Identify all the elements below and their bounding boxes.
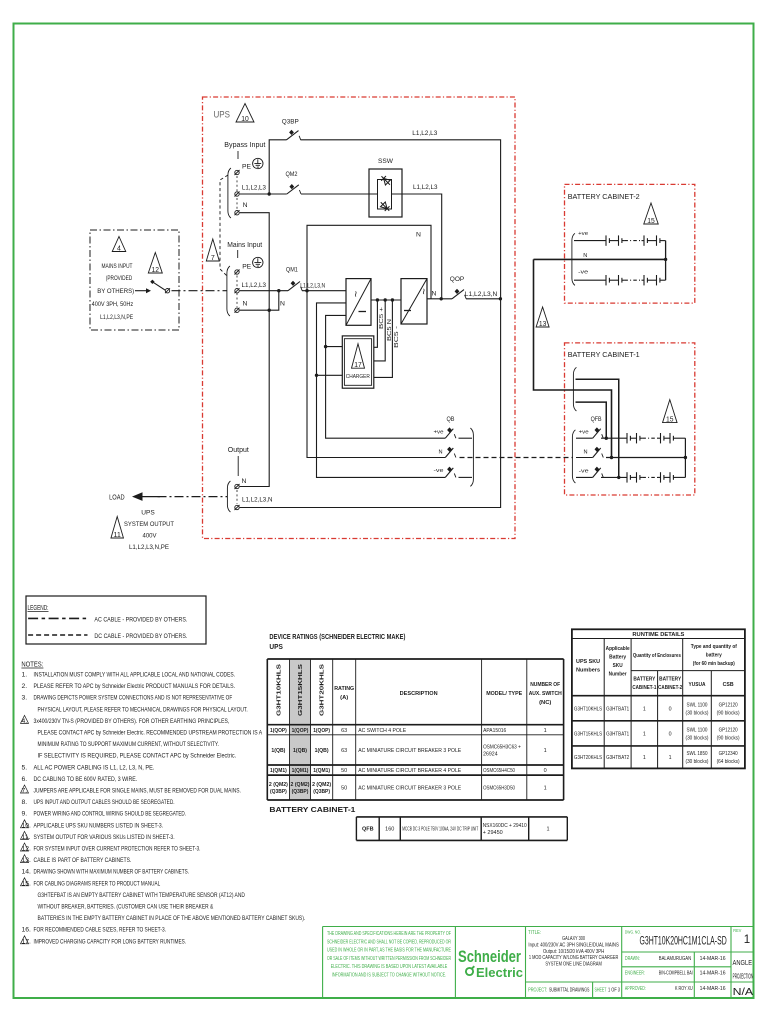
node: BC5- tap — [391, 298, 394, 301]
svg-text:1(QM1): 1(QM1) — [313, 768, 330, 774]
wire: SSW output down to QOP node — [402, 194, 442, 299]
wire: bypass N / output N vertical — [240, 213, 270, 487]
node: mains N tap — [268, 309, 271, 312]
mains terminal dashes — [236, 276, 238, 308]
svg-text:ELECTRIC. THIS DRAWING IS BASE: ELECTRIC. THIS DRAWING IS BASED UPON LAT… — [331, 964, 448, 970]
svg-text:UPS: UPS — [214, 110, 231, 121]
mains N terminal — [235, 308, 239, 312]
svg-text:Quantity of Enclosures: Quantity of Enclosures — [633, 653, 681, 659]
svg-text:1(QB): 1(QB) — [315, 748, 329, 754]
svg-text:7: 7 — [211, 255, 215, 262]
svg-text:G3HTEFBAT IS AN EMPTY BATTERY: G3HTEFBAT IS AN EMPTY BATTERY CABINET WI… — [38, 892, 245, 899]
battery table grid — [355, 817, 357, 841]
node: bypass L junction — [268, 192, 271, 195]
svg-text:SCHNEIDER ELECTRIC AND SHALL N: SCHNEIDER ELECTRIC AND SHALL NOT BE COPI… — [327, 939, 451, 945]
svg-text:QM2: QM2 — [286, 171, 298, 178]
mains source switch — [135, 290, 146, 292]
svg-text:N: N — [243, 202, 248, 209]
wire: BC5+ drop to charger — [374, 300, 378, 347]
svg-text:PLEASE CONTACT APC by Schneide: PLEASE CONTACT APC by Schneider Electric… — [38, 730, 263, 737]
note 13. — [21, 855, 29, 863]
svg-text:AC MINIATURE CIRCUIT BREAKER 4: AC MINIATURE CIRCUIT BREAKER 4 POLE — [358, 768, 461, 774]
svg-text:+ve: +ve — [434, 430, 444, 436]
legend AC sample — [28, 617, 87, 619]
wire: N loop to inverter output — [307, 225, 431, 298]
svg-text:UPS SKU: UPS SKU — [576, 659, 600, 665]
svg-text:CSB: CSB — [723, 682, 734, 688]
svg-text:1: 1 — [643, 706, 646, 712]
svg-text:1: 1 — [669, 755, 672, 761]
node: QM1 output junction — [305, 289, 308, 292]
svg-text:N: N — [243, 301, 248, 308]
device table gray column — [290, 659, 311, 800]
note 7. — [21, 785, 29, 793]
svg-text:QFB: QFB — [591, 416, 602, 423]
svg-text:(64 blocks): (64 blocks) — [717, 759, 740, 765]
svg-text:11: 11 — [113, 532, 121, 539]
svg-text:(30 blocks): (30 blocks) — [686, 735, 709, 741]
bypass L terminal — [235, 192, 239, 196]
wire: BC1 cable A to -ve — [576, 379, 619, 477]
svg-text:BATTERY CABINET-1: BATTERY CABINET-1 — [568, 350, 640, 359]
svg-text:4: 4 — [117, 245, 121, 252]
QB cable bracket — [470, 428, 473, 486]
svg-text:WITHOUT BREAKER, BATTERIES. (C: WITHOUT BREAKER, BATTERIES. (CUSTOMER CA… — [38, 904, 214, 911]
svg-text:-ve: -ve — [578, 270, 588, 276]
svg-text:POWER WIRING AND CONTROL WIRIN: POWER WIRING AND CONTROL WIRING SHOULD B… — [34, 811, 187, 818]
svg-text:BATTERY: BATTERY — [659, 677, 681, 683]
svg-text:SWL 1100: SWL 1100 — [687, 727, 708, 733]
UPS enclosure dashed box — [203, 97, 516, 539]
svg-text:Output: Output — [228, 447, 249, 454]
wire: BC5- drop to charger — [374, 300, 393, 377]
svg-text:1: 1 — [744, 934, 750, 946]
svg-text:(90 blocks): (90 blocks) — [717, 710, 740, 716]
svg-text:APPLICABLE UPS SKU NUMBERS LIS: APPLICABLE UPS SKU NUMBERS LISTED IN SHE… — [34, 822, 164, 829]
svg-text:-ve: -ve — [434, 468, 444, 474]
svg-text:N: N — [583, 253, 587, 259]
svg-text:17.: 17. — [22, 938, 32, 945]
BATTERY CABINET-2 dashed box — [565, 184, 695, 303]
svg-text:13: 13 — [539, 321, 547, 328]
svg-text:BC5 -: BC5 - — [394, 326, 400, 348]
svg-text:BC5 +: BC5 + — [379, 307, 385, 329]
wire: N bus down to QB N pole — [307, 291, 445, 458]
note 11. — [21, 831, 29, 839]
svg-text:Applicable: Applicable — [606, 646, 630, 652]
svg-text:(Q3BP): (Q3BP) — [292, 789, 309, 795]
svg-text:PROJECTION: PROJECTION — [733, 971, 754, 980]
svg-text:BC5 N: BC5 N — [387, 319, 393, 341]
svg-text:Input: 400/230V AC 3PH SINGLE/: Input: 400/230V AC 3PH SINGLE/DUAL MAINS — [528, 942, 618, 948]
node: BC5 N tap — [384, 298, 387, 301]
svg-text:BATTERIES IN THE EMPTY BATTERY: BATTERIES IN THE EMPTY BATTERY CABINET I… — [38, 915, 306, 922]
svg-text:AC CABLE - PROVIDED BY OTHERS.: AC CABLE - PROVIDED BY OTHERS. — [94, 617, 187, 624]
svg-text:CABINET-2: CABINET-2 — [658, 685, 682, 691]
svg-text:1: 1 — [544, 748, 547, 754]
svg-text:50: 50 — [341, 786, 347, 792]
svg-text:SKU: SKU — [613, 663, 623, 669]
svg-text:L1,L2,L3: L1,L2,L3 — [242, 185, 266, 192]
svg-text:OSMC65H3C63 +: OSMC65H3C63 + — [483, 744, 521, 750]
wire: BC2 N export down to BC1 — [534, 259, 612, 457]
svg-text:G3HT10KHLS: G3HT10KHLS — [276, 664, 282, 716]
BC1 right tie — [684, 438, 686, 477]
svg-text:Number: Number — [609, 672, 628, 678]
svg-text:12.: 12. — [22, 846, 32, 853]
svg-text:L1,L2,L3,N,PE: L1,L2,L3,N,PE — [129, 544, 169, 551]
node: SSW joins inverter output — [440, 297, 443, 300]
svg-text:12: 12 — [152, 267, 160, 274]
svg-text:PLEASE REFER TO APC by Schneid: PLEASE REFER TO APC by Schneider Electri… — [34, 683, 236, 690]
wire: QOP out — [466, 298, 501, 300]
svg-text:NOTES:: NOTES: — [21, 660, 43, 669]
svg-text:1: 1 — [546, 827, 549, 833]
svg-text:-ve: -ve — [579, 469, 589, 475]
svg-text:+ve: +ve — [579, 430, 589, 436]
wire: BC1 cable C to +ve — [576, 402, 607, 438]
wire: LOAD dash-dot — [158, 496, 228, 498]
svg-text:REV: REV — [733, 928, 741, 933]
wire: Q3BP output L1,L2,L3 top run — [240, 140, 501, 508]
svg-text:UPS INPUT AND OUTPUT CABLES SH: UPS INPUT AND OUTPUT CABLES SHOULD BE SE… — [34, 799, 175, 806]
svg-text:1: 1 — [544, 728, 547, 734]
svg-text:L1,L2,L3,N,PE: L1,L2,L3,N,PE — [100, 314, 133, 321]
svg-text:N: N — [584, 450, 588, 456]
svg-text:THE DRAWING AND SPECIFICATIONS: THE DRAWING AND SPECIFICATIONS HEREIN AR… — [327, 931, 451, 937]
svg-text:15.: 15. — [22, 880, 32, 887]
svg-text:DRAWING SHOWN WITH MAXIMUM NUM: DRAWING SHOWN WITH MAXIMUM NUMBER OF BAT… — [34, 869, 190, 876]
wire: DC link — [371, 299, 401, 301]
note flag triangle 15 (cabinet 2) — [644, 203, 659, 224]
legend box — [26, 596, 206, 644]
svg-text:+ve: +ve — [578, 231, 588, 237]
svg-text:~: ~ — [417, 288, 429, 294]
svg-text:13.: 13. — [22, 857, 32, 864]
svg-text:SYSTEM ONE LINE DIAGRAM: SYSTEM ONE LINE DIAGRAM — [545, 962, 602, 968]
svg-text:BATTERY CABINET-2: BATTERY CABINET-2 — [568, 192, 640, 201]
svg-text:AC SWITCH 4 POLE: AC SWITCH 4 POLE — [358, 728, 406, 734]
svg-text:SWL 1850: SWL 1850 — [687, 751, 708, 757]
svg-text:BATTERY: BATTERY — [633, 677, 655, 683]
svg-text:LEGEND:: LEGEND: — [28, 605, 49, 612]
svg-text:1(QOP): 1(QOP) — [292, 728, 309, 734]
svg-text:Schneider: Schneider — [458, 948, 521, 966]
mains terminal bracket — [227, 266, 230, 316]
svg-text:DEVICE RATINGS (SCHNEIDER ELEC: DEVICE RATINGS (SCHNEIDER ELECTRIC MAKE) — [269, 634, 405, 641]
svg-text:N: N — [416, 232, 421, 239]
svg-text:5.: 5. — [22, 764, 28, 771]
svg-text:Battery: Battery — [609, 655, 627, 661]
MAINS INPUT source box — [90, 230, 179, 330]
svg-text:16.: 16. — [22, 927, 32, 934]
note flag triangle 7 — [206, 239, 219, 261]
svg-text:DC CABLE - PROVIDED BY OTHERS.: DC CABLE - PROVIDED BY OTHERS. — [94, 633, 187, 640]
svg-text:ALL AC POWER CABLING IS L1, L2: ALL AC POWER CABLING IS L1, L2, L3, N, P… — [34, 764, 155, 771]
svg-text:1(QOP): 1(QOP) — [270, 728, 287, 734]
svg-text:FOR RECOMMENDED CABLE SIZES, R: FOR RECOMMENDED CABLE SIZES, REFER TO SH… — [34, 927, 167, 934]
svg-text:~: ~ — [349, 291, 361, 297]
svg-text:G3HT15KHLS: G3HT15KHLS — [298, 664, 304, 716]
svg-text:N: N — [432, 291, 437, 298]
svg-text:INFORMATION AND IS SUBJECT TO: INFORMATION AND IS SUBJECT TO CHANGE WIT… — [332, 973, 447, 979]
note flag triangle 11 — [111, 517, 124, 539]
svg-text:AC MINIATURE CIRCUIT BREAKER 3: AC MINIATURE CIRCUIT BREAKER 3 POLE — [358, 786, 461, 792]
svg-text:BIN-COMPBELL BAI: BIN-COMPBELL BAI — [659, 971, 693, 977]
svg-text:RUNTIME DETAILS: RUNTIME DETAILS — [632, 632, 684, 638]
svg-text:(Q3BP): (Q3BP) — [270, 789, 287, 795]
svg-text:IF SELECTIVITY IS REQUIRED, PL: IF SELECTIVITY IS REQUIRED, PLEASE CONTA… — [38, 753, 237, 760]
svg-text:SWL 1100: SWL 1100 — [687, 702, 708, 708]
svg-text:0: 0 — [669, 706, 672, 712]
node: BC5+ tap — [376, 298, 379, 301]
svg-text:Output: 10/15/20 kVA 400V 3PH: Output: 10/15/20 kVA 400V 3PH — [543, 949, 604, 955]
svg-text:OSMC65H3D50: OSMC65H3D50 — [483, 786, 515, 792]
svg-text:PE: PE — [242, 164, 251, 171]
svg-text:FOR CABLING DIAGRAMS REFER TO: FOR CABLING DIAGRAMS REFER TO PRODUCT MA… — [34, 880, 161, 887]
svg-text:G3HTBAT1: G3HTBAT1 — [606, 706, 629, 712]
svg-text:+ 29450: + 29450 — [483, 830, 503, 836]
svg-text:GP12340: GP12340 — [719, 751, 738, 757]
runtime table grid — [572, 629, 745, 768]
svg-text:L1,L2,L3,N: L1,L2,L3,N — [242, 497, 273, 504]
svg-text:Electric: Electric — [476, 965, 523, 980]
note flag triangle 13 — [536, 307, 549, 327]
svg-text:NUMBER OF: NUMBER OF — [530, 682, 560, 688]
svg-text:(90 blocks): (90 blocks) — [717, 735, 740, 741]
svg-text:NSX160DC + 29410: NSX160DC + 29410 — [483, 823, 527, 829]
svg-text:N: N — [242, 478, 247, 485]
svg-text:1.: 1. — [22, 672, 28, 679]
svg-text:SYSTEM OUTPUT FOR VARIOUS SKUs: SYSTEM OUTPUT FOR VARIOUS SKUs LISTED IN… — [34, 834, 175, 841]
svg-text:QOP: QOP — [450, 276, 465, 283]
note 17. — [21, 936, 29, 944]
svg-text:N: N — [280, 301, 285, 308]
wire: QM1 out to rectifier — [302, 290, 346, 292]
svg-text:MINIMUM RATING TO SUPPORT MAXI: MINIMUM RATING TO SUPPORT MAXIMUM CURREN… — [38, 741, 219, 748]
svg-text:(PROVIDED: (PROVIDED — [106, 275, 133, 282]
svg-text:(Q3BP): (Q3BP) — [313, 789, 330, 795]
svg-text:OR SALE OF ITEMS WITHOUT WRITT: OR SALE OF ITEMS WITHOUT WRITTEN PERMISS… — [327, 956, 451, 962]
svg-text:10.: 10. — [22, 822, 32, 829]
svg-text:15: 15 — [647, 218, 655, 225]
svg-text:G3HT20KHLS: G3HT20KHLS — [574, 755, 602, 761]
dashed jumper bypass-to-mains — [220, 175, 228, 276]
BC1 N row — [606, 457, 685, 459]
svg-text:1(QM1): 1(QM1) — [292, 768, 309, 774]
wire: AC dash-dot mains to UPS — [172, 290, 227, 292]
svg-text:L1,L2,L3: L1,L2,L3 — [242, 282, 267, 289]
svg-text:400V: 400V — [143, 533, 157, 540]
note 15. — [21, 878, 29, 886]
bypass PE terminal — [235, 170, 239, 174]
svg-text:PE: PE — [242, 264, 251, 271]
svg-text:26924: 26924 — [483, 751, 498, 757]
svg-text:1: 1 — [544, 786, 547, 792]
svg-text:APA15016: APA15016 — [483, 728, 506, 734]
svg-text:2 (QM2): 2 (QM2) — [312, 782, 331, 788]
legend DC sample — [28, 634, 87, 636]
svg-text:GALAXY 300: GALAXY 300 — [562, 936, 585, 942]
svg-text:G3HTBAT1: G3HTBAT1 — [606, 731, 629, 737]
device table grid — [266, 659, 268, 800]
svg-text:ANGLE: ANGLE — [733, 958, 753, 967]
wire: bypass L to QM2 — [240, 193, 287, 195]
svg-text:6.: 6. — [22, 776, 28, 783]
svg-text:G3HT10K20HC1M1CLA-SD: G3HT10K20HC1M1CLA-SD — [640, 936, 727, 948]
BC1 -ve battery string — [601, 476, 627, 478]
wire: bypass feed split vertical — [269, 140, 286, 194]
svg-text:MCCB DC 3 POLE 750V 100kA, 24V: MCCB DC 3 POLE 750V 100kA, 24V DC TRIP U… — [402, 827, 478, 833]
svg-text:1(QM1): 1(QM1) — [270, 768, 287, 774]
wire: inverter output — [427, 298, 452, 300]
svg-text:L1,L2,L3,N: L1,L2,L3,N — [465, 291, 498, 298]
svg-text:DC CABLING TO BE 600V RATED, 3: DC CABLING TO BE 600V RATED, 3 WIRE. — [34, 776, 138, 783]
svg-text:G3HT20KHLS: G3HT20KHLS — [320, 664, 326, 716]
svg-text:4.: 4. — [22, 718, 28, 725]
svg-text:QM1: QM1 — [286, 267, 298, 274]
svg-text:0: 0 — [669, 731, 672, 737]
svg-text:CABINET-1: CABINET-1 — [632, 685, 656, 691]
svg-text:K ROY XU: K ROY XU — [675, 986, 693, 992]
wire: QM2 to SSW — [301, 193, 369, 195]
BATTERY CABINET-1 dashed box — [565, 343, 695, 495]
output terminal dashes — [236, 490, 238, 504]
inverter (DC/AC) — [401, 279, 427, 324]
svg-text:INSTALLATION MUST COMPLY WITH: INSTALLATION MUST COMPLY WITH ALL APPLIC… — [34, 672, 236, 679]
svg-text:14-MAR-16: 14-MAR-16 — [700, 986, 726, 992]
note flag triangle 17 — [352, 344, 365, 369]
svg-text:N/A: N/A — [733, 986, 754, 998]
svg-text:AC MINIATURE CIRCUIT BREAKER 3: AC MINIATURE CIRCUIT BREAKER 3 POLE — [358, 748, 461, 754]
svg-text:BALAMURUGAN: BALAMURUGAN — [659, 956, 691, 962]
svg-text:SSW: SSW — [378, 158, 394, 165]
svg-text:L1,L2,L3: L1,L2,L3 — [412, 130, 437, 137]
svg-text:Numbers: Numbers — [576, 668, 600, 674]
svg-text:63: 63 — [341, 748, 347, 754]
svg-text:USED IN WHOLE OR IN PART, AS T: USED IN WHOLE OR IN PART, AS THE BASIS F… — [327, 948, 451, 954]
svg-text:1(QB): 1(QB) — [271, 748, 285, 754]
svg-text:battery: battery — [706, 653, 723, 659]
svg-text:Mains Input: Mains Input — [227, 242, 262, 249]
svg-text:Q3BP: Q3BP — [282, 119, 299, 126]
wire: BC5 N drop to charger — [374, 300, 385, 361]
svg-text:OSMC65H4C50: OSMC65H4C50 — [483, 768, 515, 774]
svg-text:2 (QM2): 2 (QM2) — [291, 782, 310, 788]
svg-text:AUX. SWITCH: AUX. SWITCH — [529, 691, 562, 697]
svg-text:3x400/230V TN-S (PROVIDED BY O: 3x400/230V TN-S (PROVIDED BY OTHERS). FO… — [34, 718, 230, 725]
note flag triangle 4 — [112, 237, 126, 252]
svg-text:10: 10 — [241, 116, 249, 123]
svg-text:G3HTBAT2: G3HTBAT2 — [606, 755, 629, 761]
wire: QB N dashed DC link to cabinet — [460, 457, 574, 459]
svg-text:CHARGER: CHARGER — [346, 374, 370, 380]
node: bypass joins output — [499, 297, 502, 300]
svg-text:IMPROVED CHARGING CAPACITY FOR: IMPROVED CHARGING CAPACITY FOR LONG BATT… — [34, 938, 187, 945]
svg-text:RATING: RATING — [334, 686, 354, 692]
svg-text:160: 160 — [385, 827, 394, 833]
note 12. — [21, 843, 29, 851]
svg-text:L1,L2,L3: L1,L2,L3 — [413, 184, 438, 191]
BC1 +ve battery string — [601, 437, 627, 439]
svg-text:(for 60 min backup): (for 60 min backup) — [693, 661, 735, 667]
svg-text:UPS: UPS — [141, 510, 155, 517]
svg-text:SYSTEM OUTPUT: SYSTEM OUTPUT — [124, 521, 174, 528]
svg-text:QB: QB — [447, 416, 455, 423]
svg-text:N: N — [439, 450, 443, 456]
svg-text:SHEET: SHEET — [595, 988, 607, 994]
svg-text:UPS: UPS — [269, 644, 283, 651]
QFB terminal bracket — [572, 430, 575, 483]
svg-text:9.: 9. — [22, 811, 28, 818]
svg-text:50: 50 — [341, 768, 347, 774]
svg-text:Type and quantity of: Type and quantity of — [691, 644, 737, 650]
rectifier (AC/DC) — [346, 279, 371, 326]
svg-text:2 (QM2): 2 (QM2) — [269, 782, 288, 788]
svg-text:15: 15 — [666, 416, 674, 423]
bypass terminal dashes — [236, 176, 238, 209]
svg-text:FOR SYSTEM INPUT OVER CURRENT: FOR SYSTEM INPUT OVER CURRENT PROTECTION… — [34, 846, 201, 853]
svg-text:(NC): (NC) — [539, 700, 551, 706]
BC2 right tie — [665, 241, 667, 281]
mains PE terminal — [235, 270, 239, 274]
svg-text:8.: 8. — [22, 799, 28, 806]
svg-text:1: 1 — [643, 731, 646, 737]
svg-text:Bypass Input: Bypass Input — [224, 142, 265, 149]
svg-text:400V 3PH, 50Hz: 400V 3PH, 50Hz — [92, 301, 134, 308]
svg-text:14-MAR-16: 14-MAR-16 — [700, 971, 726, 977]
svg-text:7.: 7. — [22, 788, 28, 795]
svg-text:11.: 11. — [22, 834, 31, 841]
bypass N terminal — [235, 211, 239, 215]
wire: mains N merge — [240, 291, 279, 311]
svg-text:TITLE:: TITLE: — [528, 930, 541, 936]
svg-text:APPROVED:: APPROVED: — [625, 986, 646, 992]
svg-text:(A): (A) — [340, 695, 348, 701]
svg-text:14-MAR-16: 14-MAR-16 — [700, 956, 726, 962]
node: N merge on L line — [277, 289, 280, 292]
svg-text:14.: 14. — [22, 869, 32, 876]
svg-text:MODEL/ TYPE: MODEL/ TYPE — [486, 691, 522, 697]
svg-text:DRAWING DEPICTS POWER SYSTEM C: DRAWING DEPICTS POWER SYSTEM CONNECTIONS… — [34, 695, 233, 702]
svg-text:ENGINEER:: ENGINEER: — [625, 971, 645, 977]
title block frame — [323, 926, 754, 928]
svg-text:DESCRIPTION: DESCRIPTION — [400, 691, 438, 697]
svg-text:2.: 2. — [22, 683, 28, 690]
svg-text:0: 0 — [544, 768, 547, 774]
wire: rectifier plus tap to QB +ve — [326, 315, 446, 438]
svg-text:MAINS INPUT: MAINS INPUT — [102, 263, 133, 270]
svg-text:1(QB): 1(QB) — [293, 748, 307, 754]
svg-text:1: 1 — [643, 755, 646, 761]
svg-text:3.: 3. — [22, 695, 28, 702]
svg-text:(30 blocks): (30 blocks) — [686, 759, 709, 765]
svg-text:L1,L2,L3,N: L1,L2,L3,N — [300, 283, 325, 290]
note flag triangle 10 — [236, 104, 254, 123]
wire: mains L to QM1 — [240, 290, 288, 292]
bypass terminal bracket — [228, 168, 231, 218]
svg-text:(30 blocks): (30 blocks) — [686, 710, 709, 716]
svg-text:G3HT10KHLS: G3HT10KHLS — [574, 706, 602, 712]
svg-text:GP12120: GP12120 — [719, 702, 738, 708]
BC2 terminal bracket — [572, 233, 575, 285]
svg-text:SUBMITTAL DRAWINGS: SUBMITTAL DRAWINGS — [549, 988, 590, 994]
svg-text:QFB: QFB — [362, 827, 374, 833]
note 10. — [21, 820, 29, 828]
battery charger — [342, 336, 374, 388]
svg-text:DWG. NO.: DWG. NO. — [625, 930, 641, 935]
svg-text:17: 17 — [354, 362, 362, 369]
